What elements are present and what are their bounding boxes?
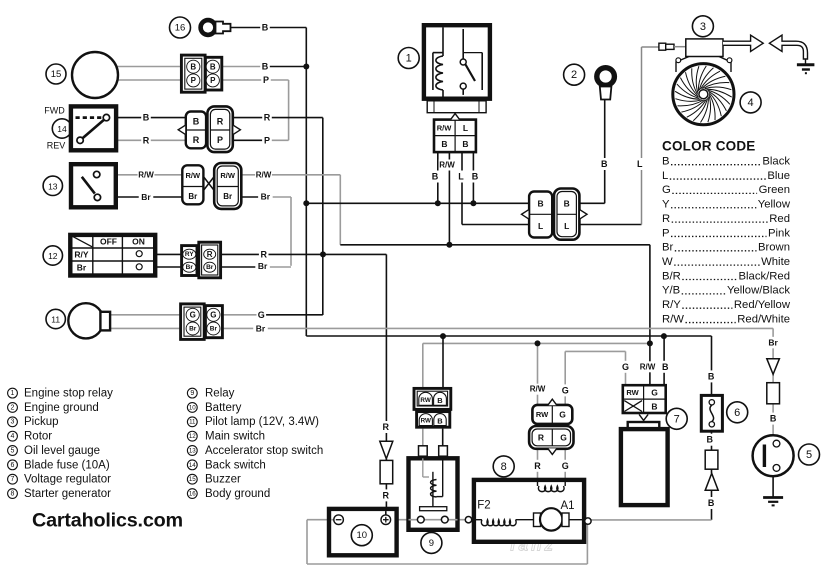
svg-text:Br: Br bbox=[662, 242, 674, 254]
svg-text:L: L bbox=[458, 172, 464, 182]
svg-text:R: R bbox=[217, 117, 224, 127]
svg-text:R/W: R/W bbox=[530, 385, 546, 394]
svg-text:Red/White: Red/White bbox=[737, 313, 790, 325]
svg-text:Black: Black bbox=[762, 156, 790, 168]
svg-text:Br: Br bbox=[141, 192, 151, 202]
svg-text:B: B bbox=[432, 172, 439, 182]
svg-text:B: B bbox=[707, 435, 714, 445]
svg-text:B: B bbox=[462, 139, 468, 149]
svg-text:P: P bbox=[662, 227, 670, 239]
svg-text:B: B bbox=[472, 172, 479, 182]
svg-text:B: B bbox=[262, 23, 269, 33]
svg-text:11: 11 bbox=[189, 419, 196, 426]
svg-text:G: G bbox=[651, 387, 658, 397]
svg-text:Y/B: Y/B bbox=[662, 285, 680, 297]
svg-text:G: G bbox=[622, 362, 629, 372]
svg-text:Main switch: Main switch bbox=[205, 431, 265, 443]
svg-text:Yellow/Black: Yellow/Black bbox=[727, 285, 790, 297]
svg-text:B: B bbox=[662, 362, 669, 372]
svg-text:4: 4 bbox=[748, 97, 754, 109]
svg-text:B: B bbox=[651, 401, 657, 411]
svg-text:RW: RW bbox=[420, 397, 430, 404]
svg-text:15: 15 bbox=[51, 69, 62, 80]
svg-text:RW: RW bbox=[421, 418, 431, 425]
svg-text:1: 1 bbox=[11, 390, 15, 397]
svg-text:B: B bbox=[662, 156, 670, 168]
svg-text:G: G bbox=[258, 310, 265, 320]
svg-text:P: P bbox=[191, 76, 197, 85]
svg-text:COLOR CODE: COLOR CODE bbox=[662, 139, 756, 154]
svg-text:B: B bbox=[437, 417, 443, 426]
svg-text:B: B bbox=[708, 371, 715, 381]
svg-text:5: 5 bbox=[806, 449, 812, 461]
svg-text:Red/Yellow: Red/Yellow bbox=[734, 299, 791, 311]
svg-text:Body ground: Body ground bbox=[205, 488, 270, 500]
svg-text:RW: RW bbox=[536, 410, 549, 419]
svg-text:16: 16 bbox=[175, 23, 186, 34]
svg-text:A1: A1 bbox=[560, 500, 574, 512]
svg-text:REV: REV bbox=[47, 141, 66, 151]
svg-text:P: P bbox=[264, 135, 270, 145]
svg-text:10: 10 bbox=[189, 404, 196, 411]
svg-text:B: B bbox=[262, 62, 269, 72]
svg-text:R: R bbox=[383, 490, 390, 500]
svg-text:B: B bbox=[564, 199, 570, 209]
svg-text:Oil level gauge: Oil level gauge bbox=[24, 445, 100, 457]
svg-text:G: G bbox=[559, 410, 566, 420]
svg-text:Engine stop relay: Engine stop relay bbox=[24, 388, 113, 400]
svg-text:8: 8 bbox=[11, 490, 15, 497]
svg-text:R/W: R/W bbox=[186, 171, 202, 180]
svg-text:Relay: Relay bbox=[205, 388, 235, 400]
svg-text:R: R bbox=[534, 461, 541, 471]
svg-text:R/W: R/W bbox=[256, 170, 272, 179]
svg-text:R/W: R/W bbox=[138, 170, 154, 179]
svg-text:Br: Br bbox=[189, 325, 197, 332]
svg-text:L: L bbox=[637, 159, 643, 169]
svg-text:FWD: FWD bbox=[44, 106, 65, 116]
svg-text:B: B bbox=[441, 139, 447, 149]
svg-text:Buzzer: Buzzer bbox=[205, 474, 241, 486]
svg-text:B: B bbox=[601, 159, 608, 169]
svg-text:Voltage regulator: Voltage regulator bbox=[24, 474, 111, 486]
svg-text:ON: ON bbox=[132, 236, 145, 246]
svg-text:Green: Green bbox=[759, 184, 790, 196]
svg-text:6: 6 bbox=[11, 462, 15, 469]
svg-text:9: 9 bbox=[190, 390, 194, 397]
svg-text:15: 15 bbox=[189, 476, 196, 483]
svg-text:5: 5 bbox=[11, 447, 15, 454]
svg-text:7: 7 bbox=[11, 476, 15, 483]
svg-text:B: B bbox=[770, 414, 777, 424]
svg-text:Br: Br bbox=[258, 261, 268, 271]
svg-text:14: 14 bbox=[57, 124, 67, 134]
svg-text:B: B bbox=[193, 117, 200, 127]
svg-text:R/W: R/W bbox=[662, 313, 684, 325]
svg-text:R: R bbox=[260, 249, 267, 259]
svg-text:R: R bbox=[264, 113, 271, 123]
svg-text:Black/Red: Black/Red bbox=[739, 270, 791, 282]
svg-text:13: 13 bbox=[189, 447, 196, 454]
svg-text:RY: RY bbox=[185, 251, 194, 258]
svg-text:R: R bbox=[662, 213, 670, 225]
svg-text:Yellow: Yellow bbox=[758, 199, 791, 211]
svg-text:R/W: R/W bbox=[439, 161, 455, 170]
svg-text:12: 12 bbox=[189, 433, 196, 440]
svg-text:Rotor: Rotor bbox=[24, 431, 52, 443]
svg-text:R: R bbox=[538, 433, 544, 443]
svg-text:L: L bbox=[564, 221, 569, 231]
svg-text:L: L bbox=[662, 170, 668, 182]
svg-text:4: 4 bbox=[11, 433, 15, 440]
svg-text:13: 13 bbox=[48, 181, 58, 191]
svg-text:G: G bbox=[190, 311, 196, 320]
svg-text:Br: Br bbox=[223, 192, 232, 201]
svg-text:F2: F2 bbox=[477, 500, 490, 512]
svg-text:14: 14 bbox=[189, 462, 196, 469]
svg-text:16: 16 bbox=[189, 490, 196, 497]
svg-text:R/W: R/W bbox=[640, 362, 656, 371]
svg-text:9: 9 bbox=[429, 538, 434, 549]
svg-text:B: B bbox=[143, 113, 150, 123]
svg-text:Br: Br bbox=[768, 338, 778, 348]
svg-text:L: L bbox=[538, 221, 543, 231]
svg-text:Br: Br bbox=[256, 323, 266, 333]
svg-text:Red: Red bbox=[769, 213, 790, 225]
svg-text:Br: Br bbox=[188, 192, 197, 201]
svg-text:Br: Br bbox=[77, 262, 87, 272]
svg-text:Pink: Pink bbox=[768, 227, 790, 239]
svg-text:G: G bbox=[562, 385, 569, 395]
svg-text:3: 3 bbox=[700, 21, 706, 33]
svg-text:G: G bbox=[560, 433, 567, 443]
svg-text:B: B bbox=[210, 63, 216, 72]
svg-text:3: 3 bbox=[11, 419, 15, 426]
svg-text:R/Y: R/Y bbox=[74, 249, 89, 259]
svg-text:Battery: Battery bbox=[205, 402, 242, 414]
svg-text:R/W: R/W bbox=[220, 171, 236, 180]
svg-text:G: G bbox=[662, 184, 671, 196]
svg-text:G: G bbox=[562, 461, 569, 471]
svg-text:B: B bbox=[437, 396, 443, 405]
svg-text:R: R bbox=[193, 135, 200, 145]
svg-text:R: R bbox=[383, 422, 390, 432]
svg-text:R/Y: R/Y bbox=[662, 299, 681, 311]
svg-text:R: R bbox=[143, 135, 150, 145]
svg-text:Starter generator: Starter generator bbox=[24, 488, 111, 500]
svg-text:Pickup: Pickup bbox=[24, 416, 59, 428]
svg-text:Brown: Brown bbox=[758, 242, 790, 254]
svg-text:White: White bbox=[761, 256, 790, 268]
svg-text:P: P bbox=[263, 75, 269, 85]
svg-text:B: B bbox=[708, 498, 715, 508]
svg-text:Br: Br bbox=[210, 325, 218, 332]
svg-text:Back switch: Back switch bbox=[205, 459, 266, 471]
svg-text:R/W: R/W bbox=[437, 123, 453, 132]
svg-text:Engine ground: Engine ground bbox=[24, 402, 99, 414]
svg-text:12: 12 bbox=[48, 251, 58, 261]
svg-text:Accelerator stop switch: Accelerator stop switch bbox=[205, 445, 323, 457]
svg-text:8: 8 bbox=[501, 461, 507, 473]
svg-text:Blue: Blue bbox=[767, 170, 790, 182]
svg-text:RW: RW bbox=[626, 388, 639, 397]
svg-text:OFF: OFF bbox=[100, 236, 117, 246]
svg-text:6: 6 bbox=[734, 407, 740, 419]
svg-text:Blade fuse (10A): Blade fuse (10A) bbox=[24, 459, 110, 471]
svg-text:B: B bbox=[190, 63, 196, 72]
svg-text:7: 7 bbox=[674, 413, 680, 425]
svg-text:Br: Br bbox=[261, 192, 271, 202]
svg-text:P: P bbox=[210, 76, 216, 85]
svg-text:Cartaholics.com: Cartaholics.com bbox=[32, 510, 183, 532]
svg-text:2: 2 bbox=[571, 69, 577, 81]
svg-text:P: P bbox=[217, 135, 223, 145]
svg-text:L: L bbox=[463, 123, 468, 133]
svg-text:R: R bbox=[207, 250, 213, 259]
svg-text:G: G bbox=[210, 311, 216, 320]
svg-text:10: 10 bbox=[357, 530, 368, 541]
svg-text:Br: Br bbox=[206, 264, 214, 271]
svg-text:Pilot lamp (12V, 3.4W): Pilot lamp (12V, 3.4W) bbox=[205, 416, 319, 428]
svg-text:Y: Y bbox=[662, 199, 670, 211]
svg-text:11: 11 bbox=[51, 315, 60, 325]
svg-text:W: W bbox=[662, 256, 673, 268]
svg-text:B/R: B/R bbox=[662, 270, 681, 282]
svg-text:Br: Br bbox=[186, 264, 194, 271]
svg-text:B: B bbox=[538, 199, 544, 209]
svg-text:2: 2 bbox=[11, 404, 15, 411]
svg-text:1: 1 bbox=[406, 53, 412, 65]
